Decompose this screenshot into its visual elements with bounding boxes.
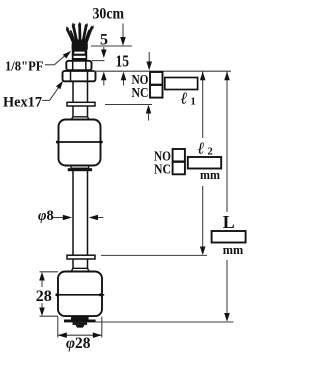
svg-text:2: 2: [208, 147, 213, 158]
svg-text:ℓ: ℓ: [181, 89, 188, 108]
svg-text:L: L: [223, 212, 235, 232]
svg-text:NC: NC: [132, 85, 149, 100]
svg-text:5: 5: [100, 31, 108, 48]
svg-text:φ8: φ8: [38, 208, 54, 224]
svg-text:1/8"PF: 1/8"PF: [5, 60, 44, 75]
svg-text:30cm: 30cm: [93, 5, 125, 22]
svg-text:1: 1: [191, 97, 196, 108]
svg-text:15: 15: [116, 52, 130, 71]
svg-text:mm: mm: [223, 242, 244, 257]
svg-text:mm: mm: [200, 167, 220, 182]
svg-text:ℓ: ℓ: [198, 139, 205, 158]
svg-text:Hex17: Hex17: [3, 95, 42, 111]
svg-text:28: 28: [36, 288, 52, 305]
svg-text:NC: NC: [154, 162, 171, 177]
svg-text:φ28: φ28: [66, 335, 91, 352]
